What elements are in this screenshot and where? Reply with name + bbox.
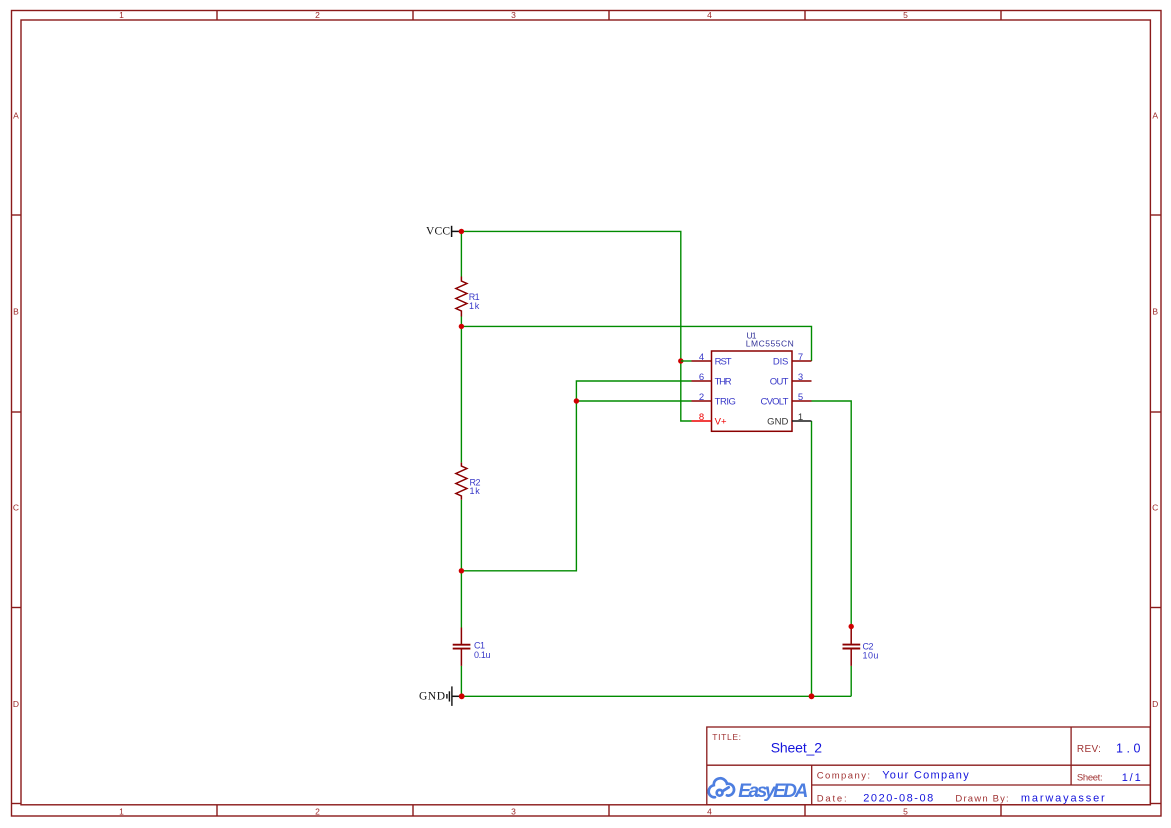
wire pin 5 CVOLT right and down to C2 top [812, 401, 852, 627]
svg-text:2: 2 [315, 806, 320, 816]
svg-text:Drawn By:: Drawn By: [955, 793, 1008, 804]
svg-text:B: B [13, 307, 19, 317]
svg-text:1: 1 [119, 10, 124, 20]
pin 8 V+ [692, 412, 728, 428]
pin 4 RST [692, 352, 732, 368]
junction at VCC node [459, 229, 464, 234]
capacitor C2 [843, 629, 861, 666]
svg-text:2: 2 [315, 10, 320, 20]
wire RST tap to pin 4 [681, 360, 692, 362]
svg-text:2020-08-08: 2020-08-08 [863, 792, 933, 804]
svg-text:1k: 1k [470, 486, 481, 496]
wire VCC rail: VCC flag right, down to pin 8 V+ [461, 231, 691, 421]
svg-text:1.0: 1.0 [1116, 741, 1141, 755]
svg-text:A: A [13, 110, 19, 120]
svg-text:V+: V+ [715, 417, 727, 428]
junction at C2 top node [849, 624, 854, 629]
wire C2 bottom down to ground rail [850, 666, 852, 696]
svg-text:1: 1 [798, 412, 803, 423]
svg-text:C: C [13, 503, 19, 513]
svg-text:D: D [13, 699, 19, 709]
svg-text:GND: GND [767, 417, 788, 428]
wire pin 1 GND down to ground rail [811, 421, 813, 696]
svg-text:Sheet_2: Sheet_2 [771, 740, 823, 756]
svg-text:THR: THR [715, 377, 732, 388]
svg-text:LMC555CN: LMC555CN [746, 339, 794, 349]
svg-text:10u: 10u [863, 651, 879, 661]
junction at GND node [459, 693, 465, 699]
svg-text:1/1: 1/1 [1122, 772, 1141, 784]
svg-text:Your Company: Your Company [882, 770, 969, 782]
junction at RST tap on VCC rail [678, 358, 683, 363]
wire R2 bottom down to C1 top [460, 500, 462, 628]
svg-text:B: B [1152, 307, 1158, 317]
pin 1 GND [767, 412, 811, 428]
junction at R1 bottom node [459, 324, 464, 329]
svg-text:C1: C1 [474, 640, 485, 650]
pin 6 THR [692, 372, 732, 388]
svg-text:EasyEDA: EasyEDA [738, 781, 808, 802]
svg-text:0.1u: 0.1u [474, 650, 491, 660]
svg-text:VCC: VCC [426, 226, 450, 238]
capacitor C1 [453, 628, 471, 666]
wire VCC flag down to R1 top [460, 231, 462, 276]
svg-text:5: 5 [903, 806, 908, 816]
svg-text:6: 6 [699, 372, 704, 383]
svg-text:Sheet:: Sheet: [1077, 773, 1103, 784]
ground flag GND [419, 686, 460, 706]
svg-text:OUT: OUT [770, 377, 789, 388]
op-amp timer U1 body [712, 351, 793, 431]
svg-text:3: 3 [511, 10, 516, 20]
wire THR node: pin 6 left, down, left to R2 bottom node [461, 381, 691, 571]
pin 7 DIS [773, 352, 812, 368]
svg-text:A: A [1152, 110, 1158, 120]
svg-text:D: D [1152, 699, 1158, 709]
svg-text:RST: RST [715, 357, 732, 368]
wire R1/R2 node right and down to pin 7 DIS [461, 326, 811, 361]
junction where pin 1 wire meets ground rail [809, 693, 815, 699]
svg-text:CVOLT: CVOLT [761, 397, 789, 408]
title block [707, 727, 1151, 805]
svg-text:7: 7 [798, 352, 803, 363]
svg-text:8: 8 [699, 412, 704, 423]
EasyEDA logo [709, 778, 809, 802]
svg-text:DIS: DIS [773, 357, 789, 368]
svg-text:1: 1 [119, 806, 124, 816]
svg-text:TRIG: TRIG [715, 397, 736, 408]
wire C1 bottom down to ground rail [460, 666, 462, 696]
resistor R1 [456, 277, 467, 317]
svg-text:4: 4 [707, 806, 712, 816]
svg-text:5: 5 [903, 10, 908, 20]
pin 5 CVOLT [761, 392, 812, 408]
wire TRIG: pin 2 left to junction on THR drop [576, 400, 691, 402]
svg-text:GND: GND [419, 690, 445, 702]
svg-text:Date:: Date: [817, 793, 847, 804]
svg-text:3: 3 [511, 806, 516, 816]
svg-text:5: 5 [798, 392, 803, 403]
wire R1 bottom node down to R2 top [460, 317, 462, 463]
svg-text:4: 4 [699, 352, 704, 363]
svg-text:3: 3 [798, 372, 803, 383]
svg-text:1k: 1k [469, 301, 480, 311]
svg-text:REV:: REV: [1077, 744, 1101, 755]
svg-text:Company:: Company: [817, 771, 870, 782]
svg-text:TITLE:: TITLE: [712, 732, 741, 742]
net flag VCC [426, 226, 460, 238]
pin 3 OUT [770, 372, 812, 388]
junction at R2 bottom node [459, 568, 464, 573]
junction at TRIG tap [574, 398, 579, 403]
svg-text:2: 2 [699, 392, 704, 403]
resistor R2 [456, 463, 467, 500]
svg-text:C: C [1152, 503, 1158, 513]
svg-text:4: 4 [707, 10, 712, 20]
svg-text:marwayasser: marwayasser [1021, 792, 1105, 804]
wire ground rail along bottom [461, 695, 851, 697]
pin 2 TRIG [692, 392, 736, 408]
